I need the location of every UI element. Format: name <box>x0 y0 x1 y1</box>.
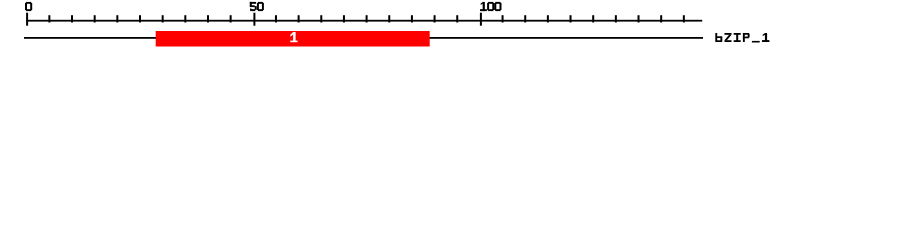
domain name letter b <box>715 33 717 42</box>
major tick 100 <box>480 13 482 26</box>
domain name underscore <box>752 41 760 43</box>
domain number 1 (flag) <box>290 32 293 37</box>
domain name digit 1 <box>765 33 767 42</box>
ruler label 0 <box>25 3 27 10</box>
domain number 1 (stem) <box>293 32 296 41</box>
domain name letter Z <box>725 33 732 35</box>
ruler baseline <box>26 20 702 22</box>
domain box 1 (red) <box>156 31 430 47</box>
ruler label 50 <box>250 2 256 4</box>
domain name letter P <box>743 33 745 42</box>
major tick 0 <box>26 13 28 26</box>
major tick 50 <box>253 13 255 26</box>
minor ticks <box>48 15 684 22</box>
domain number 1 (base) <box>290 41 297 43</box>
sequence line <box>24 37 703 39</box>
domain name letter I <box>734 33 741 35</box>
ruler label 100 <box>483 2 485 11</box>
